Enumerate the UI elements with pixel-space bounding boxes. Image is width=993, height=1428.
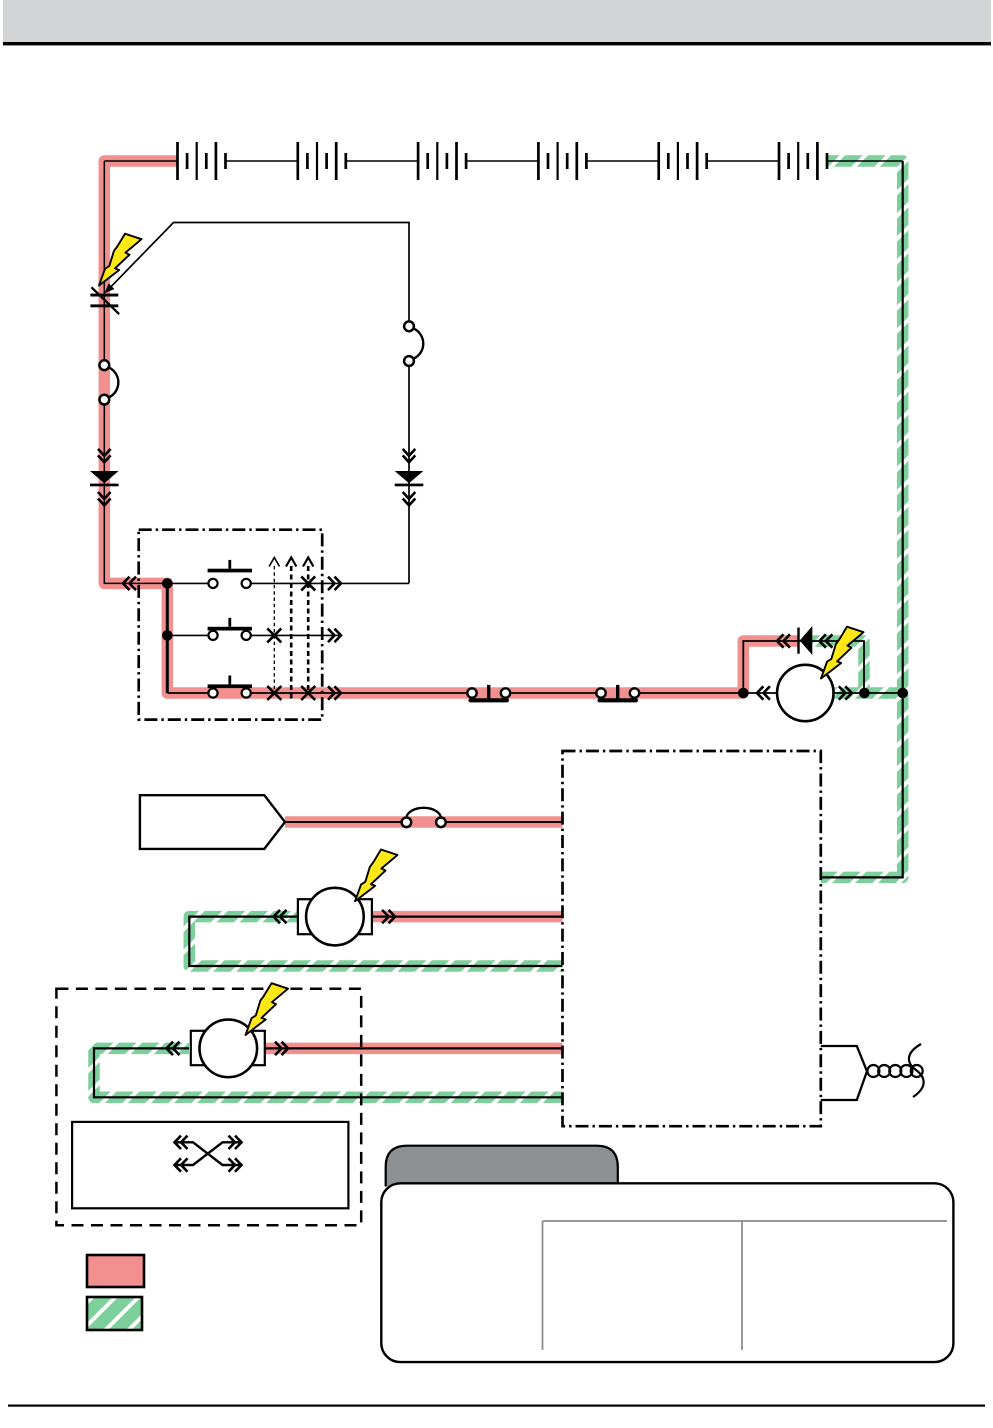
pedal switch SW2 (normally closed) xyxy=(596,685,639,700)
battery B4 xyxy=(538,142,586,180)
circuit breaker CB3 xyxy=(402,808,446,827)
wire motor M3 red conductor xyxy=(265,1047,563,1049)
wire M1 bypass green highlight xyxy=(811,641,864,693)
header bar xyxy=(3,0,991,42)
lightning bolt at motor M3 xyxy=(246,983,289,1035)
flow chevrons M3 right xyxy=(275,1042,288,1055)
wire left feeder conductor xyxy=(104,161,167,583)
wire key switch bus vertical xyxy=(166,583,169,693)
wire key switch row 3 to M1 xyxy=(167,692,777,694)
battery B6 xyxy=(779,142,827,180)
legend red swatch xyxy=(87,1255,144,1287)
crossing X row3 a xyxy=(267,686,281,700)
flow chevrons row1 out xyxy=(328,577,341,590)
wire battery interconnects xyxy=(104,160,902,162)
wire charger loop conductor xyxy=(112,223,410,584)
battery B1 xyxy=(178,142,226,180)
accessory enclosure xyxy=(56,989,361,1225)
wire motor M1 green highlight xyxy=(833,687,903,699)
junction dot M1 right xyxy=(859,688,870,699)
battery B3 xyxy=(418,142,466,180)
motor M3 xyxy=(191,1020,265,1078)
wire motor M3 red highlight xyxy=(265,1043,563,1055)
junction dot M1 left xyxy=(738,688,749,699)
pedal switch SW1 (normally closed) xyxy=(467,685,510,700)
coil cord connector xyxy=(821,1044,924,1100)
battery B2 xyxy=(298,142,346,180)
flow chevrons M3 left xyxy=(167,1042,180,1055)
crossing X row1 xyxy=(301,576,315,590)
wire main green return conductor xyxy=(821,161,903,877)
lightning bolt at motor M2 xyxy=(355,850,398,902)
flow chevrons row2 out xyxy=(328,629,341,642)
circuit breaker CB1 xyxy=(99,360,118,404)
wire motor M3 green loop conductor xyxy=(94,1048,563,1097)
note table lines xyxy=(543,1221,948,1350)
crossing X row2 xyxy=(267,628,281,642)
flow chevrons charger branch lower xyxy=(403,492,416,505)
wire motor M2 red highlight xyxy=(372,911,563,923)
crossing X row3 b xyxy=(301,686,315,700)
circuit breaker CB2 xyxy=(404,321,423,366)
flow chevrons into M1 xyxy=(757,686,770,699)
controller enclosure xyxy=(563,751,821,1126)
wire M1 to green bus xyxy=(833,692,903,694)
charger receptacle xyxy=(90,283,119,314)
reverse buzzer box xyxy=(72,1122,348,1208)
note panel xyxy=(381,1183,953,1362)
wire key switch row 2 xyxy=(167,634,341,636)
junction dot key row2 xyxy=(162,630,173,641)
battery B5 xyxy=(659,142,707,180)
flow chevrons left feeder upper xyxy=(98,449,111,462)
wire horn feed red highlight xyxy=(285,816,563,828)
wire main red supply highlight xyxy=(104,161,797,693)
flow chevrons row3 out xyxy=(328,686,341,699)
diode D3 xyxy=(797,626,812,655)
crossed arrows symbol xyxy=(175,1136,242,1172)
key switch contact S3 (closed) xyxy=(208,676,252,698)
flow chevrons bypass after diode xyxy=(819,634,832,647)
key linkage arrow 3 xyxy=(303,558,313,695)
diode D2 xyxy=(395,471,424,486)
flow chevrons left feeder lower xyxy=(98,492,111,505)
lightning bolt at motor M1 xyxy=(821,627,864,679)
wire horn feed conductor xyxy=(285,821,563,823)
horn xyxy=(140,795,285,849)
motor M1 xyxy=(777,665,833,721)
flow chevrons charger branch upper xyxy=(403,449,416,462)
wire M1 bypass conductor xyxy=(743,641,864,693)
wire motor M2 green loop highlight xyxy=(189,917,562,966)
lightning bolt at charger receptacle xyxy=(99,234,142,286)
flow chevrons into key switch xyxy=(123,577,136,590)
key switch contact S1 (open) xyxy=(208,560,252,588)
key linkage arrow 2 xyxy=(286,558,296,701)
legend green swatch xyxy=(87,1297,142,1330)
junction dot key row1 xyxy=(162,578,173,589)
flow chevrons M2 left xyxy=(274,910,287,923)
flow chevrons M2 right xyxy=(382,910,395,923)
junction dot green bus xyxy=(897,688,908,699)
note tab xyxy=(386,1146,618,1187)
wire key switch row 1 xyxy=(167,582,409,584)
footer rule xyxy=(8,1405,985,1407)
diode D1 xyxy=(90,471,119,486)
wire motor M2 green loop conductor xyxy=(189,917,562,966)
wire motor M2 red conductor xyxy=(372,915,563,917)
motor M2 xyxy=(298,888,372,946)
flow chevrons M1 out xyxy=(839,686,852,699)
wire motor M3 green loop highlight xyxy=(94,1048,563,1097)
wire main green return highlight xyxy=(821,161,903,877)
key switch enclosure xyxy=(139,530,323,720)
flow chevrons bypass before diode xyxy=(777,634,790,647)
key linkage arrow 1 xyxy=(269,558,279,695)
key switch contact S2 (closed) xyxy=(208,618,252,640)
